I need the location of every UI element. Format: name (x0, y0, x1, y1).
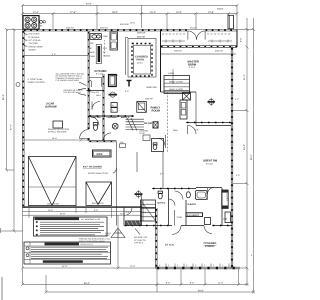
svg-text:10'-4": 10'-4" (150, 11, 156, 14)
svg-text:ROOM: ROOM (152, 110, 161, 113)
vanity dark bar (186, 213, 203, 217)
svg-text:4" CONC SLAB: 4" CONC SLAB (28, 78, 43, 81)
svg-text:30": 30" (90, 47, 93, 50)
svg-text:SINK: SINK (103, 35, 108, 38)
tub (196, 191, 208, 200)
ceiling fan (208, 98, 216, 106)
svg-text:CLOSET: CLOSET (226, 193, 229, 202)
top dimension line 2 (21, 5, 239, 29)
svg-text:BASE: BASE (90, 51, 96, 54)
double door arcs (188, 31, 205, 40)
wall x=141.5 (141, 205, 143, 226)
shower bold box (109, 75, 117, 87)
svg-text:16080 SGD: 16080 SGD (146, 86, 157, 89)
svg-text:5'-2": 5'-2" (235, 98, 239, 101)
corner dark L (127, 81, 132, 87)
svg-text:16x8 OH DR: 16x8 OH DR (47, 203, 59, 206)
right exterior wall upper (236, 30, 238, 48)
wall x=100.8 hall (103, 76, 105, 140)
svg-text:13'-8": 13'-8" (208, 11, 214, 14)
svg-text:SHELF & ROD: SHELF & ROD (169, 88, 183, 91)
svg-text:PATIO: PATIO (137, 58, 145, 61)
text between tables (79, 238, 110, 243)
top exterior wall (gap at double door x=187.5-205.5) (24, 29, 188, 31)
porch left wall (155, 209, 157, 267)
left dimension line 2 (1, 28, 23, 233)
svg-text:9'-0": 9'-0" (125, 90, 129, 93)
svg-text:16'-0": 16'-0" (48, 209, 54, 212)
svg-text:3050 SH: 3050 SH (66, 27, 74, 30)
svg-text:EQ EQ: EQ EQ (190, 26, 197, 29)
oven cabinet (110, 32, 118, 50)
svg-text:CLG UNDER LIVING AREA: CLG UNDER LIVING AREA (56, 79, 80, 82)
svg-text:94'-0": 94'-0" (86, 3, 92, 6)
svg-text:9' CLG: 9' CLG (96, 72, 103, 75)
wall x=88.6 kitchen/hall (88, 32, 90, 127)
svg-text:5020: 5020 (97, 153, 103, 156)
fireplace (137, 102, 147, 113)
bold box above door2 (93, 150, 112, 157)
hall fan (109, 94, 118, 96)
tall closet right (222, 190, 229, 209)
svg-text:LAUNDRY: LAUNDRY (107, 116, 119, 119)
svg-text:8'-0": 8'-0" (52, 53, 56, 56)
garage front wall (23, 207, 156, 209)
svg-text:TYP OF 5: TYP OF 5 (134, 242, 144, 245)
svg-text:3050 SH: 3050 SH (174, 50, 182, 53)
svg-text:18'-0": 18'-0" (112, 11, 118, 14)
bifold arcs (92, 102, 100, 110)
svg-text:24'-4": 24'-4" (243, 144, 246, 150)
svg-text:1/2" GYP BD: 1/2" GYP BD (29, 39, 42, 42)
walls y=122.5/125.5 right (186, 122, 232, 124)
sink counter (90, 34, 102, 40)
svg-text:5020 FXD: 5020 FXD (120, 23, 130, 26)
fan2 (135, 190, 143, 198)
svg-text:STOR: STOR (177, 216, 183, 219)
svg-text:12'-8": 12'-8" (130, 265, 136, 268)
svg-text:SLOPE TO DOOR: SLOPE TO DOOR (28, 81, 46, 84)
right exterior stud wall (231, 48, 233, 268)
svg-text:3050 SH: 3050 SH (100, 27, 108, 30)
leader notes bottom center (134, 236, 148, 245)
dims under garage doors (23, 207, 142, 219)
garage door 1 (29, 157, 77, 206)
foyer dark hatch bench (126, 221, 141, 226)
svg-text:12" DIA FTG: 12" DIA FTG (134, 239, 146, 242)
small texts kitchen (90, 35, 111, 58)
svg-text:W/ PULL DN STAIR: W/ PULL DN STAIR (48, 131, 67, 134)
svg-text:9'-0": 9'-0" (94, 209, 98, 212)
svg-text:24'-8": 24'-8" (60, 213, 66, 216)
svg-text:ISLAND: ISLAND (103, 55, 111, 58)
island (98, 46, 101, 62)
bench counter mud room (89, 78, 102, 88)
chimney top right (228, 15, 234, 28)
top dimension line 1 (21, 4, 239, 7)
porch dims (156, 269, 241, 292)
stairs (126, 118, 145, 131)
svg-text:11'-0": 11'-0" (218, 282, 223, 285)
top dimension labels (33, 3, 214, 14)
svg-text:R-19 INSUL: R-19 INSUL (29, 36, 41, 39)
svg-text:SIDING: SIDING (29, 49, 37, 52)
garage door 2 (86, 182, 112, 206)
svg-text:SLOPE SLAB TO DR: SLOPE SLAB TO DR (88, 172, 108, 175)
svg-text:2x6 STUDS: 2x6 STUDS (29, 33, 41, 36)
svg-text:9070 OH DR: 9070 OH DR (92, 202, 104, 205)
wall x=196 (195, 92, 197, 126)
small rect shower (205, 218, 211, 225)
svg-text:8'-0": 8'-0" (190, 282, 194, 285)
wall y=92 WIC south (161, 91, 197, 93)
sink (186, 192, 190, 198)
svg-text:GARAGE: GARAGE (45, 106, 57, 109)
svg-text:34'-8": 34'-8" (62, 265, 68, 268)
bottom dim line y=268 left (21, 208, 156, 270)
svg-text:10'-0": 10'-0" (120, 213, 126, 216)
garage north header line y=55.6 (23, 55, 89, 57)
note text mid-left (56, 73, 85, 83)
svg-text:8'x7' OH DOORS: 8'x7' OH DOORS (83, 166, 102, 169)
left exterior wall (22, 31, 24, 207)
svg-text:LIN: LIN (224, 218, 228, 221)
svg-text:12'-4": 12'-4" (33, 11, 39, 14)
svg-text:RIDGE: RIDGE (217, 8, 224, 11)
svg-text:6x6 POST ON: 6x6 POST ON (134, 236, 148, 239)
svg-text:9' CLG: 9' CLG (206, 163, 213, 166)
svg-text:3'-0": 3'-0" (236, 174, 240, 177)
svg-text:8'-0": 8'-0" (240, 38, 243, 42)
svg-text:CABS: CABS (90, 55, 96, 58)
svg-text:5'-0 VANITY: 5'-0 VANITY (187, 214, 200, 217)
svg-text:10' CLG: 10' CLG (165, 244, 174, 247)
svg-text:21'-0": 21'-0" (243, 74, 246, 80)
cabinets right of family (183, 93, 191, 101)
window dim row y=41 (162, 40, 232, 85)
svg-text:8'-0": 8'-0" (166, 282, 170, 285)
svg-text:DW: DW (90, 42, 93, 45)
misc small dim texts interior (66, 22, 240, 178)
dashed wall x=167.5 (167, 92, 169, 152)
bath center walls (152, 188, 196, 190)
svg-text:SCALE 1/4"=1': SCALE 1/4"=1' (81, 243, 94, 246)
bottom dimension lines (21, 269, 255, 294)
svg-text:16'-4": 16'-4" (130, 22, 135, 25)
left dimension line 1 (5, 28, 23, 172)
closet hatch left (141, 200, 156, 221)
toilet bath2 (158, 193, 162, 199)
door arcs (90, 117, 99, 126)
svg-text:3050 SH: 3050 SH (215, 50, 223, 53)
wall y=141 garage/house (23, 139, 89, 141)
svg-text:9' CLG: 9' CLG (189, 66, 196, 69)
right dimension lines (233, 18, 255, 294)
svg-text:PORCH: PORCH (205, 245, 214, 248)
wall y=116 (90, 115, 133, 117)
svg-text:DN 16R: DN 16R (144, 122, 153, 125)
svg-text:BATH 3: BATH 3 (158, 202, 167, 205)
svg-text:HOUSE WRAP: HOUSE WRAP (29, 45, 44, 48)
toilet (94, 125, 98, 131)
svg-text:GAS FP: GAS FP (145, 98, 153, 101)
wall x=160.5 dining east (160, 30, 162, 93)
svg-text:W: W (112, 104, 114, 107)
svg-text:LINEN: LINEN (168, 72, 175, 75)
svg-text:3050 SH: 3050 SH (137, 36, 146, 39)
svg-text:94'-0": 94'-0" (198, 289, 204, 292)
svg-text:46'-8": 46'-8" (2, 94, 5, 100)
wall y=90.5 (87, 90, 104, 92)
svg-text:HALL: HALL (96, 94, 102, 97)
svg-text:12'-0": 12'-0" (176, 11, 182, 14)
porch post dim ticks above wall (166, 264, 229, 268)
wall y=46.5 master north (161, 46, 237, 48)
svg-text:M BATH: M BATH (188, 203, 197, 206)
WIC shelves box (164, 76, 190, 94)
svg-text:5'-4": 5'-4" (160, 173, 164, 176)
thin hall verticals (136, 152, 138, 172)
svg-text:82'-0": 82'-0" (84, 282, 90, 285)
svg-text:5'-8 x 6'-0: 5'-8 x 6'-0 (91, 91, 99, 94)
svg-text:17'-8": 17'-8" (70, 11, 76, 14)
porch front wall with posts (157, 267, 240, 269)
svg-text:BATH 2: BATH 2 (121, 116, 130, 119)
svg-text:ALL WINDOWS U=.30: ALL WINDOWS U=.30 (81, 218, 100, 221)
svg-text:24'-8": 24'-8" (52, 137, 57, 140)
svg-text:7R UP: 7R UP (139, 132, 146, 135)
svg-text:2668 DR: 2668 DR (137, 31, 146, 34)
svg-text:88'-0": 88'-0" (250, 154, 253, 160)
svg-text:67'-0": 67'-0" (10, 124, 13, 130)
fan circle (112, 123, 118, 129)
wall y=225.5 bedroom/porch (door gaps) (125, 225, 171, 227)
svg-text:SHELF & ROD: SHELF & ROD (169, 80, 183, 83)
svg-text:12'x14': 12'x14' (137, 62, 144, 65)
svg-text:7/16 OSB: 7/16 OSB (29, 42, 39, 45)
svg-text:GREAT RM: GREAT RM (203, 160, 218, 163)
note box garage (53, 121, 63, 128)
